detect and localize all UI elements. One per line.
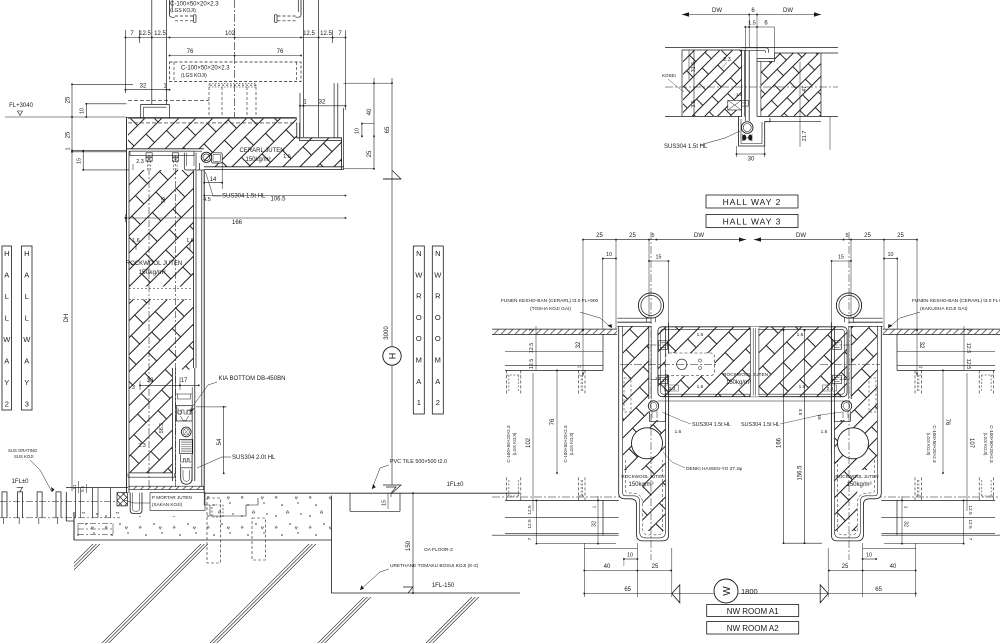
svg-text:65: 65 [875, 587, 882, 593]
door face line [203, 170, 205, 493]
right slab edge and 1FL-150 [330, 496, 332, 594]
jamb column side 0 [619, 326, 669, 541]
svg-text:25: 25 [897, 233, 904, 239]
door bottom seal strip block (lined) [180, 440, 193, 454]
hanging stud cut glyphs side 0 [505, 370, 507, 394]
svg-text:1.5: 1.5 [840, 376, 847, 381]
svg-text:4.5: 4.5 [203, 197, 211, 203]
svg-text:76: 76 [550, 418, 556, 425]
dim 10 x=86 [85, 104, 87, 117]
wall plan layers side 0 [492, 328, 617, 330]
top dimension rows right detail [583, 239, 657, 241]
svg-text:12.5: 12.5 [139, 31, 151, 37]
svg-text:12.5: 12.5 [529, 343, 535, 354]
svg-text:12.5: 12.5 [967, 519, 973, 529]
panel center joint [750, 327, 759, 397]
svg-text:FUNEN KESHO-BAN (CERARL) t3.0: FUNEN KESHO-BAN (CERARL) t3.0 FL+900 [501, 298, 598, 304]
dim 150 vertical [412, 493, 414, 593]
svg-text:12.5: 12.5 [529, 359, 535, 370]
grating bars (hallway floor) [2, 492, 61, 518]
svg-text:25: 25 [66, 131, 72, 138]
svg-text:32: 32 [140, 84, 147, 90]
svg-text:SUS GRATING: SUS GRATING [8, 448, 38, 453]
dim 15 below floor right [387, 493, 389, 509]
svg-text:12.5: 12.5 [965, 343, 971, 354]
ceiling band outline [127, 117, 297, 119]
svg-text:25: 25 [367, 150, 373, 157]
center chain line horizontal [665, 86, 838, 88]
svg-text:DW: DW [694, 233, 704, 239]
svg-text:32: 32 [319, 100, 326, 106]
svg-text:106.5: 106.5 [270, 197, 286, 203]
right wall hatch block with notch [761, 53, 821, 116]
svg-text:150kg/m³: 150kg/m³ [628, 482, 653, 488]
head gasket circle [201, 152, 211, 162]
door bottom roller circle [181, 427, 191, 437]
label box HALL WAY 3 [706, 215, 798, 228]
svg-text:ROCKWOOL JUTEN: ROCKWOOL JUTEN [835, 474, 878, 479]
label box NW ROOM A2 (vertical) [432, 246, 443, 414]
svg-text:SUS304 1.5t HL: SUS304 1.5t HL [741, 422, 780, 428]
soffit lines [204, 166, 343, 168]
band step right [297, 123, 342, 138]
svg-text:17: 17 [181, 378, 188, 384]
svg-text:65: 65 [624, 587, 631, 593]
bottom 65 / 1800 dim with W symbol [584, 593, 715, 595]
svg-text:150kg/m³: 150kg/m³ [138, 269, 166, 276]
jamb column side 1 [831, 326, 881, 541]
left vertical dim line x=72 (25/10/25 and DH) [71, 84, 73, 491]
label box NW ROOM A2 [707, 622, 799, 635]
floor line 1FL right (room) [204, 492, 520, 494]
svg-text:32: 32 [903, 521, 909, 527]
svg-text:H: H [387, 353, 397, 360]
wall hatch upper part [129, 170, 194, 287]
svg-text:1.6: 1.6 [675, 429, 682, 435]
svg-text:NW ROOM A1: NW ROOM A1 [727, 607, 780, 616]
svg-text:107: 107 [968, 438, 974, 449]
svg-text:1.6: 1.6 [821, 429, 828, 435]
svg-text:5: 5 [846, 233, 849, 239]
svg-text:PVC TILE 500×500 t2.0: PVC TILE 500×500 t2.0 [390, 459, 447, 465]
dim 15 x=83 head [82, 151, 84, 170]
svg-text:1800: 1800 [741, 587, 758, 596]
svg-text:25: 25 [66, 96, 72, 103]
svg-text:12.5: 12.5 [320, 31, 332, 37]
svg-text:166: 166 [232, 220, 243, 226]
hatch break gap [129, 288, 194, 290]
mortar fill box xhatch [117, 493, 127, 506]
DW dims to centerline [657, 239, 747, 241]
svg-text:76: 76 [187, 49, 194, 55]
svg-text:HALL WAY 3: HALL WAY 3 [723, 217, 782, 227]
svg-text:(LGS KOJI): (LGS KOJI) [170, 8, 196, 14]
panel bottom face line [658, 400, 847, 402]
svg-text:25: 25 [842, 564, 849, 570]
svg-text:16: 16 [817, 414, 822, 420]
dim row 7/12.5/12.5/102/12.5/12.5/7 y=37 [125, 37, 345, 39]
svg-text:1FL-150: 1FL-150 [432, 583, 455, 589]
symbol W circle [714, 579, 738, 603]
svg-text:25: 25 [596, 233, 603, 239]
svg-text:1: 1 [592, 505, 597, 508]
svg-text:3.5: 3.5 [691, 100, 697, 108]
svg-text:10: 10 [888, 252, 894, 258]
bottom dim rows right detail [584, 548, 637, 550]
svg-text:40: 40 [604, 564, 611, 570]
svg-text:SUS KOJI: SUS KOJI [14, 454, 34, 459]
label box HALL WAY 2 [706, 195, 798, 208]
svg-text:12.5: 12.5 [303, 31, 315, 37]
dim 1/32 right y=105.8 [300, 105, 346, 107]
svg-text:(LGS KOJI): (LGS KOJI) [926, 433, 931, 456]
svg-text:DW: DW [783, 8, 793, 14]
svg-text:2.3: 2.3 [138, 443, 146, 449]
svg-text:(LGS KOJI): (LGS KOJI) [983, 433, 988, 456]
svg-text:7: 7 [527, 537, 533, 540]
svg-text:12.5: 12.5 [527, 505, 533, 515]
svg-text:31.5: 31.5 [691, 62, 697, 73]
svg-text:12.5: 12.5 [967, 505, 973, 515]
svg-text:7: 7 [965, 329, 971, 332]
svg-text:56.5: 56.5 [159, 423, 165, 434]
label box NW ROOM A1 (vertical) [413, 246, 424, 414]
svg-text:P MORTAR JUTEN: P MORTAR JUTEN [152, 495, 192, 500]
inner opening vertical dims 166 / 156.5 [783, 330, 785, 543]
svg-text:1.5: 1.5 [748, 21, 756, 27]
svg-text:2.3: 2.3 [136, 159, 144, 165]
svg-text:DH: DH [64, 314, 70, 323]
svg-text:65: 65 [385, 126, 391, 133]
svg-text:4.5: 4.5 [798, 409, 803, 416]
svg-text:SUS304 1.5t HL: SUS304 1.5t HL [664, 144, 708, 150]
svg-text:7: 7 [529, 329, 535, 332]
svg-text:1.6: 1.6 [283, 154, 291, 160]
joint gasket circle [741, 122, 753, 134]
svg-text:1: 1 [66, 148, 72, 151]
witness verticals from top dims [582, 240, 584, 330]
service box in left hatch [728, 100, 742, 110]
svg-text:12.5: 12.5 [527, 519, 533, 529]
svg-text:30: 30 [748, 157, 755, 163]
svg-text:76: 76 [944, 419, 950, 426]
svg-text:156.5: 156.5 [798, 465, 804, 481]
svg-text:(LGS KOJI): (LGS KOJI) [181, 73, 207, 79]
witness verticals top dims [124, 30, 126, 93]
door top guide channel [184, 153, 196, 170]
dim 32/1 left y=89.7 [125, 89, 169, 91]
svg-text:102: 102 [225, 31, 236, 37]
svg-text:FL+3040: FL+3040 [9, 103, 34, 109]
side rotated dims left wall [535, 326, 537, 370]
band bottom left / head top [127, 148, 205, 150]
svg-text:10: 10 [355, 128, 361, 134]
svg-text:1.6: 1.6 [799, 384, 806, 390]
svg-text:1FL±0: 1FL±0 [447, 482, 465, 488]
wall plan layers side 1 [883, 328, 1000, 330]
band right edge [341, 138, 343, 170]
svg-text:ROCKWOOL JUTEN: ROCKWOOL JUTEN [723, 372, 769, 378]
wall top face lines [665, 47, 838, 49]
svg-text:25: 25 [629, 233, 636, 239]
dim row 76/76 y=55 [170, 55, 302, 57]
label box NW ROOM A1 [707, 605, 799, 617]
svg-text:DW: DW [796, 233, 806, 239]
wall hatch mid part [129, 300, 194, 370]
label box HALL WAY 2 (vertical) [2, 246, 12, 410]
dashed drop verticals to ceiling [208, 87, 210, 117]
joint cap plate [741, 48, 768, 53]
symbol H circle [383, 347, 401, 365]
svg-text:(SAKAN KOJI): (SAKAN KOJI) [152, 502, 183, 507]
center joint channel [740, 50, 742, 117]
head bracket right [212, 153, 223, 163]
svg-text:150kg/m³: 150kg/m³ [245, 157, 270, 163]
wall hatch lower part [129, 370, 172, 473]
door bottom U seal [181, 468, 192, 484]
svg-text:SUS304 1.5t HL: SUS304 1.5t HL [222, 194, 266, 200]
svg-text:DENKI HAISEN-YO 27.2φ: DENKI HAISEN-YO 27.2φ [686, 466, 742, 472]
joint bottom U channel [739, 117, 771, 147]
svg-text:76: 76 [277, 49, 284, 55]
door bottom top rail [176, 393, 193, 395]
svg-text:25: 25 [864, 233, 871, 239]
svg-text:ROCKWOOL JUTEN: ROCKWOOL JUTEN [621, 474, 664, 479]
svg-text:14: 14 [210, 177, 217, 183]
grating lower supports [4, 518, 58, 524]
svg-text:32: 32 [918, 342, 924, 349]
svg-text:1: 1 [904, 506, 909, 509]
svg-text:(TOSHA KOJI GAI): (TOSHA KOJI GAI) [530, 306, 571, 312]
svg-text:47: 47 [802, 86, 808, 92]
second row dims 10/15 [603, 258, 616, 260]
svg-text:12.5: 12.5 [154, 31, 166, 37]
svg-text:150kg/m³: 150kg/m³ [726, 380, 751, 386]
svg-text:(LGS KOJI): (LGS KOJI) [512, 432, 517, 455]
concrete slab stipple [74, 496, 331, 541]
svg-text:150: 150 [406, 540, 412, 551]
door bottom lower extrusion M [181, 455, 192, 462]
svg-text:C-100×50×20×2.3: C-100×50×20×2.3 [932, 425, 937, 463]
svg-text:W: W [722, 586, 733, 596]
grating chain lines [0, 501, 115, 503]
svg-text:ROCKWOOL JUTEN: ROCKWOOL JUTEN [126, 261, 182, 267]
svg-text:10: 10 [627, 553, 633, 559]
dim 65 line [391, 78, 393, 170]
svg-text:11: 11 [72, 484, 77, 489]
left wall hatch block [683, 51, 742, 117]
svg-text:OA FLOOR-2: OA FLOOR-2 [424, 547, 453, 553]
stud chain lines in wall [148, 155, 150, 487]
svg-text:(LGS KOJI): (LGS KOJI) [569, 432, 574, 455]
svg-text:7: 7 [967, 538, 973, 541]
center chain line [234, 0, 236, 117]
svg-text:10: 10 [866, 553, 872, 559]
C-channel stud C-100x50x20x2.3 top (section, dashed) [169, 0, 171, 15]
diagonal stripe hatch existing slab [0, 470, 822, 643]
dims left 31.5 / 3.5 / 2.3 [688, 50, 690, 80]
anchor dashed strips below floor [207, 498, 221, 563]
svg-text:10: 10 [80, 108, 86, 114]
svg-text:3000: 3000 [384, 326, 390, 340]
svg-text:102: 102 [526, 437, 532, 448]
svg-text:1.5: 1.5 [736, 92, 743, 97]
floor guide channel under wall [130, 493, 142, 514]
svg-text:C-100×50×20×2.3: C-100×50×20×2.3 [563, 425, 568, 463]
svg-text:40: 40 [890, 564, 897, 570]
C-channel lower section dashed box [170, 62, 302, 82]
dim 106.5 [204, 195, 345, 197]
wall inner face lines (SUS sheet) [193, 170, 195, 368]
svg-text:12.5: 12.5 [965, 359, 971, 370]
wall left face double line [126, 118, 128, 494]
small dims 11 / 5.6 near floor [77, 481, 79, 493]
door bottom seal unit [171, 368, 173, 481]
svg-text:10: 10 [606, 252, 612, 258]
svg-text:40: 40 [367, 108, 373, 115]
dim 166 [125, 217, 345, 219]
svg-text:3: 3 [132, 385, 135, 391]
svg-text:FUNEN KESHO-BAN (CERARL) t3.0: FUNEN KESHO-BAN (CERARL) t3.0 FL+90 [912, 298, 1000, 304]
lock dashed box [665, 353, 714, 376]
door bottom dim row 38/17 y=385 [140, 384, 199, 386]
ceiling band hatch left part [128, 118, 342, 166]
svg-text:1: 1 [577, 365, 582, 368]
mortar label box [150, 493, 205, 511]
dim row DW/6/DW [682, 14, 821, 16]
head step to soffit [199, 163, 201, 170]
svg-text:KOSEI: KOSEI [662, 73, 676, 78]
svg-text:55: 55 [161, 197, 167, 203]
svg-text:C-100×50×20×2.3: C-100×50×20×2.3 [170, 1, 219, 7]
dims right 47 / 21.7 / 30 [799, 62, 801, 116]
svg-text:5: 5 [652, 233, 655, 239]
svg-text:150kg/m³: 150kg/m³ [846, 482, 871, 488]
svg-text:15: 15 [838, 255, 844, 261]
svg-text:15: 15 [656, 255, 662, 261]
svg-text:DW: DW [712, 8, 722, 14]
svg-text:15: 15 [77, 158, 83, 164]
svg-text:1.6: 1.6 [697, 332, 704, 338]
svg-text:1FL±0: 1FL±0 [12, 479, 30, 485]
svg-text:1: 1 [919, 366, 924, 369]
svg-text:15: 15 [382, 500, 388, 506]
svg-text:1.5: 1.5 [655, 376, 662, 381]
door head frame parts [130, 151, 194, 156]
step dash-dot lines under wall base [78, 523, 113, 525]
svg-text:166: 166 [777, 437, 783, 448]
svg-text:C-100×50×20×2.3: C-100×50×20×2.3 [989, 425, 994, 463]
wall base verticals [65, 492, 67, 521]
svg-text:25: 25 [652, 564, 659, 570]
ceiling dim verticals 40/10/25 and 65 [373, 78, 375, 169]
svg-text:1.6: 1.6 [797, 332, 804, 338]
hanger strip with dots [209, 84, 256, 88]
ceiling height line with triangles (3000, H) [383, 170, 401, 179]
notch right of wall [349, 493, 351, 511]
svg-text:(KAKUSHA KOJI GAI): (KAKUSHA KOJI GAI) [920, 306, 968, 312]
svg-text:21.7: 21.7 [802, 131, 808, 142]
hanging stud cut glyphs side 1 [993, 370, 995, 394]
svg-text:32: 32 [592, 521, 598, 527]
dim 1.5 and 6 second row [745, 26, 774, 28]
side rotated dims right wall [963, 326, 965, 370]
svg-text:C-100×50×20×2.3: C-100×50×20×2.3 [181, 66, 230, 72]
head hanger bolts [146, 153, 152, 157]
slab recess under door [204, 493, 258, 516]
svg-text:38: 38 [147, 378, 154, 384]
svg-text:NW ROOM A2: NW ROOM A2 [727, 624, 780, 633]
svg-text:54: 54 [217, 438, 223, 445]
svg-text:CERARL JUTEN: CERARL JUTEN [239, 148, 284, 154]
svg-text:32: 32 [576, 341, 582, 348]
svg-text:1.6: 1.6 [697, 384, 704, 390]
svg-text:SUS304 1.5t HL: SUS304 1.5t HL [692, 422, 731, 428]
band upstand top-left [141, 105, 170, 119]
svg-text:SUS304 2.0t HL: SUS304 2.0t HL [232, 455, 276, 461]
svg-text:C-100×50×20×2.3: C-100×50×20×2.3 [506, 425, 511, 463]
dim 14 [203, 174, 205, 187]
label box HALL WAY 3 (vertical) [22, 246, 33, 410]
svg-text:KIA BOTTOM DB-450BN: KIA BOTTOM DB-450BN [219, 376, 286, 382]
transom panel between jambs (rockwool filled) [658, 327, 847, 397]
svg-text:HALL WAY 2: HALL WAY 2 [723, 197, 782, 207]
door bottom upper bracket [176, 406, 192, 421]
svg-text:URETHANE TOMAKU BOSUI KOJI (K: URETHANE TOMAKU BOSUI KOJI (K-2) [390, 563, 479, 569]
